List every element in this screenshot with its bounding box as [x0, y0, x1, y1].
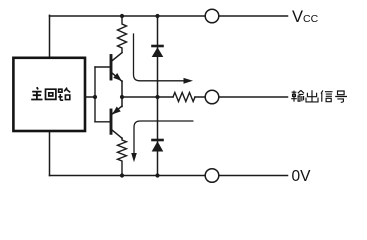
arrow: source-current flow arrow (upper) — [134, 34, 194, 84]
wire: output rail to Q2 emitter — [121, 97, 123, 107]
label: 主回路 (main circuit) — [31, 87, 70, 100]
主 — [31, 87, 42, 99]
node: junction dots on 0V rail — [120, 173, 160, 177]
terminal T2: output circle — [205, 90, 219, 104]
出 — [306, 90, 318, 102]
resistor R2 (lower resistor, vertical) — [118, 138, 127, 176]
resistor R3 (output series resistor, horizontal) — [173, 93, 195, 102]
transistor Q1 (NPN upper) — [111, 53, 122, 82]
wire: Q1 emitter to output rail — [121, 81, 123, 97]
transistor Q2 (PNP lower) — [111, 106, 122, 138]
wire: base wire to Q2 — [95, 121, 110, 123]
wire: Vcc top rail — [50, 15, 288, 17]
号 — [335, 91, 347, 102]
terminal T1: Vcc circle — [205, 9, 219, 23]
wire: clamp diode branch vertical — [157, 16, 159, 176]
arrow: sink-current flow arrow (lower) — [131, 121, 193, 162]
terminal T3: 0V circle — [205, 169, 219, 183]
wire: left vertical from box bottom to 0V rail — [49, 131, 51, 176]
diode D1 (clamp to Vcc) — [151, 45, 164, 57]
wire: left vertical from Vcc rail to box top — [49, 15, 51, 58]
label: 0V — [292, 168, 312, 185]
路 — [58, 89, 63, 100]
svg-text:0V: 0V — [292, 168, 312, 185]
diode D2 (clamp to 0V) — [151, 139, 164, 152]
信 — [321, 90, 333, 101]
node: junction dots on Vcc rail — [120, 14, 160, 18]
label: 输出信号 (output signal) — [291, 90, 347, 102]
wire: base bus vertical rail — [94, 67, 96, 122]
label: Vcc — [292, 8, 319, 26]
block: main circuit box (主回路) — [13, 58, 85, 131]
回 — [46, 89, 56, 99]
wire: output rail (middle) — [122, 96, 288, 98]
node: junction dots on output rail — [120, 95, 160, 99]
resistor R1 (collector resistor, vertical) — [118, 16, 127, 53]
wire: stub from box to base rail — [85, 96, 95, 98]
svg-text:V: V — [292, 8, 303, 26]
wire: base wire to Q1 — [95, 66, 110, 68]
svg-text:CC: CC — [303, 13, 319, 25]
wire: 0V bottom rail — [50, 175, 288, 177]
输 — [291, 91, 297, 102]
node: junction dot stub/base rail — [93, 95, 97, 99]
